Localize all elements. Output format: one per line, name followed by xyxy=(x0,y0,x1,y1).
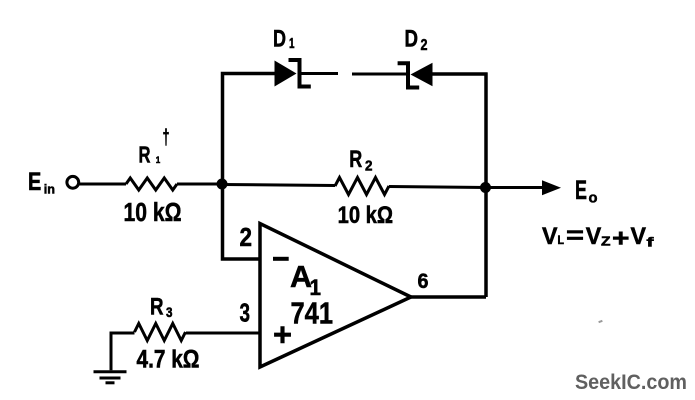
svg-text:+: + xyxy=(273,317,292,353)
ground symbol xyxy=(94,372,127,383)
R3 designator xyxy=(150,294,173,321)
svg-text:V: V xyxy=(631,223,647,250)
wire input to R1 xyxy=(79,183,127,186)
svg-text:in: in xyxy=(44,182,55,197)
svg-text:1: 1 xyxy=(289,35,295,52)
svg-text:2: 2 xyxy=(240,224,253,252)
main wire node A to R2 xyxy=(222,185,335,186)
svg-text:3: 3 xyxy=(166,304,173,320)
svg-text:10 kΩ: 10 kΩ xyxy=(338,202,394,229)
svg-text:1: 1 xyxy=(156,155,161,166)
svg-text:V: V xyxy=(586,223,602,250)
output arrow wire xyxy=(486,180,561,195)
wire left rail up to top xyxy=(223,74,276,185)
wire ground to R3 xyxy=(111,333,135,370)
wire R1 to node A xyxy=(177,183,223,186)
svg-text:4.7 kΩ: 4.7 kΩ xyxy=(137,346,200,374)
svg-text:R: R xyxy=(150,294,164,321)
svg-text:R: R xyxy=(139,142,151,168)
R2 designator xyxy=(349,146,372,174)
formula VL = VZ + Vf xyxy=(542,223,655,253)
op-amp A1 triangle xyxy=(260,224,411,368)
svg-text:E: E xyxy=(575,175,587,205)
svg-text:D: D xyxy=(273,25,286,52)
svg-text:10 kΩ: 10 kΩ xyxy=(124,199,182,227)
svg-text:V: V xyxy=(542,223,558,250)
svg-text:E: E xyxy=(28,168,41,196)
wire gap to D2 xyxy=(352,73,406,76)
R1 designator with dagger xyxy=(139,126,170,168)
node Ein label xyxy=(28,168,55,197)
node B junction dot xyxy=(480,182,491,193)
svg-text:Z: Z xyxy=(601,234,611,249)
stray scan speck xyxy=(598,320,602,323)
svg-text:R: R xyxy=(349,146,362,173)
wire D1 to gap xyxy=(301,72,338,75)
node Eo label xyxy=(575,175,598,207)
wire pin 6 to right rail xyxy=(410,295,486,299)
zener diode D1 xyxy=(275,60,311,87)
svg-text:SeekIC.com: SeekIC.com xyxy=(575,371,687,394)
wire D2 to right corner xyxy=(432,72,488,76)
input terminal circle xyxy=(67,176,79,188)
svg-text:=: = xyxy=(566,223,584,250)
node A junction dot xyxy=(217,179,228,190)
svg-text:6: 6 xyxy=(418,269,429,293)
svg-text:L: L xyxy=(558,233,565,247)
svg-text:o: o xyxy=(589,190,598,207)
right rail lower xyxy=(484,188,488,298)
zener diode D2 xyxy=(398,63,433,88)
op-amp minus input sign xyxy=(273,257,289,261)
svg-text:2: 2 xyxy=(365,158,373,174)
svg-text:†: † xyxy=(163,126,170,149)
op-amp designator A1 xyxy=(290,259,321,300)
svg-text:D: D xyxy=(405,25,419,52)
right rail upper xyxy=(484,73,488,188)
wire node A down to pin 2 xyxy=(223,184,261,259)
D1 label xyxy=(273,25,295,52)
D2 label xyxy=(405,25,428,54)
svg-text:+: + xyxy=(612,224,630,252)
resistor R2 xyxy=(335,178,389,195)
wire R2 to node B xyxy=(389,187,486,188)
svg-text:3: 3 xyxy=(240,300,251,328)
resistor R1 xyxy=(126,178,177,190)
wire R3 to pin 3 xyxy=(186,332,260,335)
svg-text:f: f xyxy=(647,235,655,250)
resistor R3 xyxy=(135,324,186,341)
svg-text:741: 741 xyxy=(291,296,334,331)
svg-text:2: 2 xyxy=(421,37,428,54)
